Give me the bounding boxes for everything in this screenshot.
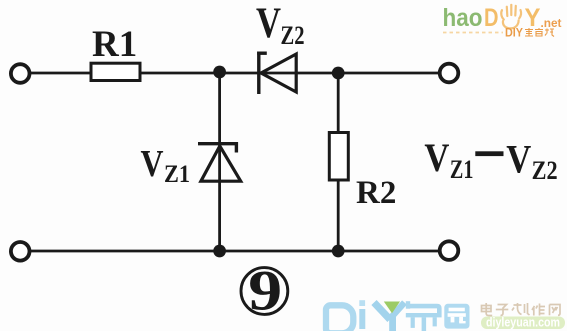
svg-text:Z2: Z2 [532, 155, 558, 185]
网 [550, 305, 561, 316]
i letter dot [359, 300, 365, 306]
tagline 真有趣 pseudo-glyphs [525, 28, 554, 37]
svg-text:DIY: DIY [505, 28, 523, 40]
制 [512, 303, 530, 315]
svg-text:Y: Y [525, 4, 541, 32]
terminal output bottom [440, 241, 459, 260]
svg-text:Z2: Z2 [281, 21, 305, 50]
watermark haoDIY logo [443, 4, 562, 40]
svg-text:V: V [424, 135, 449, 180]
zener diode VZ1 (vertical, cathode top) [198, 142, 241, 181]
i letter stem [359, 309, 365, 329]
zener diode VZ2 (horizontal, cathode left) [257, 52, 296, 95]
hand icon [501, 5, 521, 29]
terminal input top [11, 64, 30, 83]
电 [482, 303, 493, 316]
resistor R1 [91, 63, 140, 80]
junction node top-left [213, 66, 226, 79]
svg-text:diyleyuan.com: diyleyuan.com [486, 316, 560, 330]
top wire [30, 72, 440, 75]
svg-text:R1: R1 [92, 24, 137, 65]
watermark diyleyuan.com box [481, 317, 565, 330]
D letter (rounded ring, flat left) [326, 305, 353, 331]
svg-text:V: V [141, 143, 164, 185]
svg-text:V: V [256, 0, 281, 47]
子 [496, 305, 509, 316]
Y letter right arm [392, 303, 405, 318]
Y letter stem [389, 316, 396, 331]
resistor R2 [329, 133, 348, 181]
svg-text:D: D [484, 4, 499, 32]
svg-text:Z1: Z1 [164, 161, 190, 188]
terminal output top [440, 64, 459, 83]
watermark DIY乐园 logo [326, 300, 565, 331]
乐 pseudo-glyph [406, 301, 442, 331]
svg-text:9: 9 [248, 259, 282, 323]
junction node bottom-right [332, 245, 345, 258]
wire left vertical branch [218, 73, 221, 251]
bottom wire [30, 250, 440, 253]
svg-text:Z1: Z1 [450, 155, 474, 184]
junction node top-right [332, 67, 345, 80]
terminal input bottom [11, 242, 30, 261]
作 [532, 304, 545, 316]
output expression VZ1 minus VZ2 [424, 135, 557, 185]
wire right vertical branch [337, 73, 340, 251]
watermark 电子制作网 pseudo-glyphs [482, 303, 561, 316]
figure number 9 circle [241, 268, 288, 315]
dashed divider [443, 32, 503, 34]
svg-text:hao: hao [443, 4, 483, 32]
junction node bottom-left [213, 245, 226, 258]
svg-text:R2: R2 [356, 175, 396, 211]
svg-text:.net: .net [541, 16, 562, 30]
svg-text:V: V [506, 137, 531, 182]
Y letter left arm [374, 303, 390, 320]
green triangle [384, 302, 400, 314]
园 pseudo-glyph (solid block with white glyph) [444, 304, 469, 329]
